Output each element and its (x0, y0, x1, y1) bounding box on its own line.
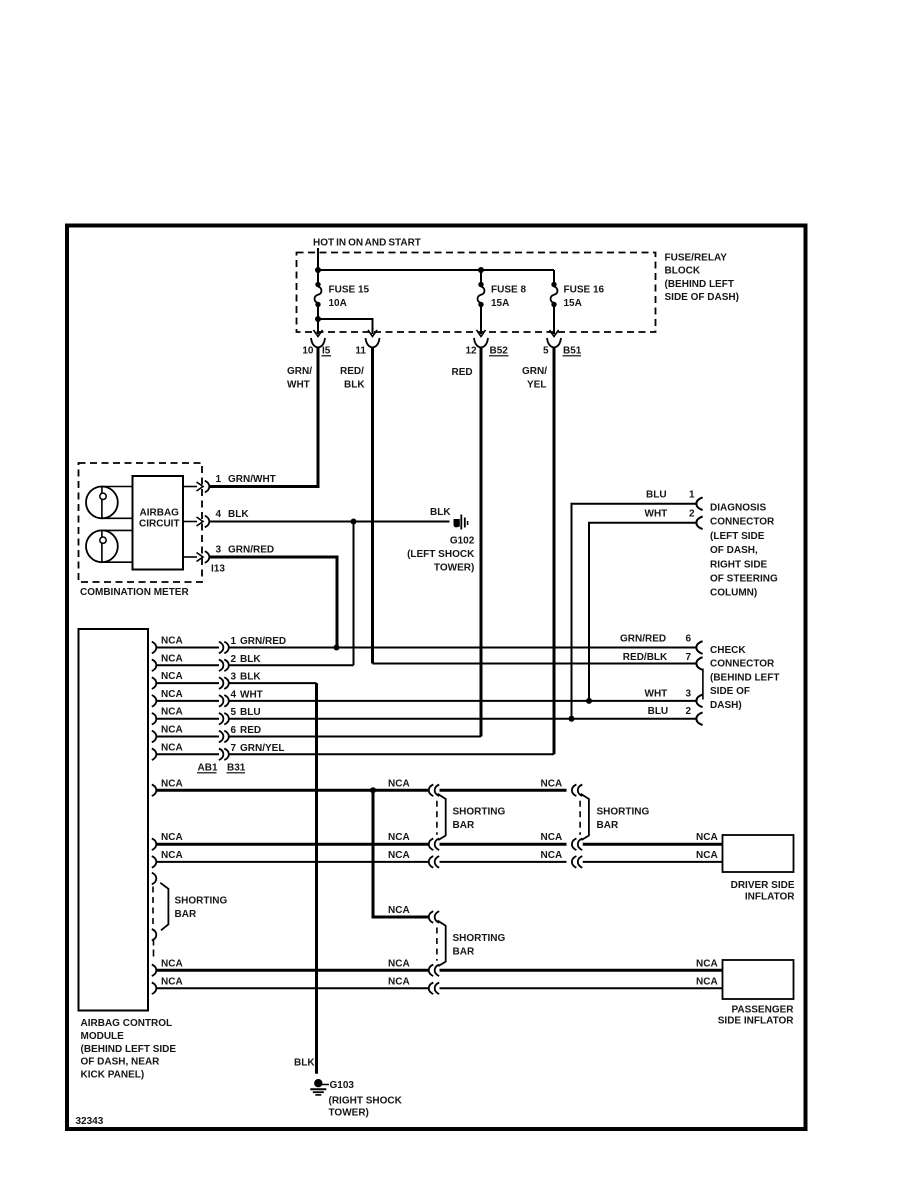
svg-text:RIGHT SIDE: RIGHT SIDE (710, 559, 768, 570)
svg-text:NCA: NCA (161, 778, 183, 789)
wire hot feed down (317, 248, 319, 284)
wire GRN/RED pin3 run (209, 557, 337, 648)
svg-text:(RIGHT SHOCK: (RIGHT SHOCK (329, 1096, 403, 1107)
meter pin 3 out (183, 556, 197, 558)
fuse/relay block dashed box (297, 253, 656, 333)
svg-text:NCA: NCA (696, 976, 718, 987)
wire fuse 8 drop (480, 270, 482, 284)
wire branch to pin 11 (318, 319, 373, 334)
wire row A branch down (373, 790, 428, 917)
svg-text:B51: B51 (563, 346, 582, 357)
svg-text:I13: I13 (211, 564, 225, 575)
svg-text:1: 1 (216, 474, 222, 485)
wire BLK row3 to G103 (315, 683, 318, 1074)
shorting bar driver mid (438, 794, 446, 840)
svg-text:B31: B31 (227, 763, 246, 774)
svg-text:RED/: RED/ (340, 366, 364, 377)
airbag circuit box U-meter (133, 476, 184, 570)
svg-text:OF STEERING: OF STEERING (710, 574, 778, 585)
svg-text:BLK: BLK (430, 507, 451, 518)
module pin row 5 BLU (152, 713, 157, 725)
node row A branch (370, 787, 376, 793)
svg-text:NCA: NCA (161, 689, 183, 700)
svg-text:BLK: BLK (240, 654, 261, 665)
svg-text:6: 6 (231, 725, 237, 736)
connector check pin2 (696, 712, 702, 725)
svg-text:CONNECTOR: CONNECTOR (710, 517, 775, 528)
svg-text:2: 2 (685, 706, 691, 717)
svg-text:NCA: NCA (388, 832, 410, 843)
svg-text:NCA: NCA (388, 958, 410, 969)
svg-text:FUSE 15: FUSE 15 (329, 285, 370, 296)
svg-text:BLK: BLK (228, 509, 249, 520)
svg-text:BLK: BLK (344, 379, 365, 390)
svg-text:AIRBAG: AIRBAG (140, 508, 180, 519)
connector check pin3 (696, 695, 702, 708)
connector diagnosis pin2 (696, 517, 702, 530)
svg-text:NCA: NCA (161, 976, 183, 987)
svg-text:TOWER): TOWER) (434, 563, 474, 574)
svg-text:NCA: NCA (541, 850, 563, 861)
ground G102 (454, 519, 460, 528)
node GRN/RED joins row1 (334, 645, 340, 651)
svg-text:RED: RED (452, 367, 473, 378)
svg-text:KICK PANEL): KICK PANEL) (81, 1070, 145, 1081)
svg-text:2: 2 (231, 654, 237, 665)
svg-text:NCA: NCA (388, 905, 410, 916)
svg-text:COMBINATION METER: COMBINATION METER (80, 587, 189, 598)
svg-text:4: 4 (231, 689, 237, 700)
ground G103 (314, 1079, 322, 1087)
connector diagnosis pin1 (696, 497, 702, 510)
svg-text:BLK: BLK (240, 672, 261, 683)
svg-text:BLU: BLU (646, 490, 667, 501)
node WHT tap row4 (586, 698, 592, 704)
svg-text:3: 3 (231, 672, 237, 683)
connector pin 5 B51 (547, 338, 554, 348)
svg-text:NCA: NCA (541, 832, 563, 843)
svg-text:NCA: NCA (161, 707, 183, 718)
shorting bar passenger (438, 921, 446, 967)
svg-text:AB1: AB1 (198, 763, 218, 774)
svg-text:MODULE: MODULE (81, 1031, 125, 1042)
svg-text:GRN/RED: GRN/RED (620, 634, 666, 645)
node fuse15 branch (315, 316, 321, 322)
node BLU tap row5 (569, 716, 575, 722)
fuse F16 (551, 282, 556, 287)
svg-text:SIDE OF DASH): SIDE OF DASH) (665, 292, 739, 303)
shorting bar driver right (581, 794, 589, 840)
svg-text:6: 6 (685, 634, 691, 645)
svg-text:FUSE/RELAY: FUSE/RELAY (665, 253, 728, 264)
svg-text:7: 7 (685, 652, 691, 663)
svg-text:(BEHIND LEFT SIDE: (BEHIND LEFT SIDE (81, 1044, 177, 1055)
svg-text:G103: G103 (330, 1080, 355, 1091)
svg-text:(BEHIND LEFT: (BEHIND LEFT (710, 672, 779, 683)
svg-text:CIRCUIT: CIRCUIT (139, 519, 180, 530)
svg-text:GRN/RED: GRN/RED (228, 545, 274, 556)
svg-text:WHT: WHT (645, 508, 668, 519)
svg-text:1: 1 (689, 490, 695, 501)
svg-text:SIDE OF: SIDE OF (710, 686, 750, 697)
module shorting bar arcs (152, 873, 157, 885)
svg-text:SHORTING: SHORTING (453, 933, 506, 944)
svg-text:BLU: BLU (240, 707, 261, 718)
svg-text:WHT: WHT (240, 689, 263, 700)
svg-text:NCA: NCA (161, 725, 183, 736)
svg-text:BLU: BLU (648, 706, 669, 717)
svg-text:NCA: NCA (696, 850, 718, 861)
svg-text:NCA: NCA (161, 958, 183, 969)
svg-text:RED/BLK: RED/BLK (623, 652, 668, 663)
svg-text:NCA: NCA (161, 653, 183, 664)
svg-text:NCA: NCA (696, 958, 718, 969)
airbag control module box (79, 629, 149, 1011)
svg-text:3: 3 (216, 545, 222, 556)
wire WHT to diagnosis pin2 (589, 523, 697, 701)
svg-text:15A: 15A (564, 298, 582, 309)
svg-text:(LEFT SHOCK: (LEFT SHOCK (407, 549, 475, 560)
svg-text:BLOCK: BLOCK (665, 266, 701, 277)
combination meter dashed box (79, 463, 203, 582)
svg-text:NCA: NCA (161, 832, 183, 843)
svg-text:AIRBAG CONTROL: AIRBAG CONTROL (81, 1018, 173, 1029)
wire RED feed (480, 348, 483, 737)
node hot bus junction (315, 267, 321, 273)
lamp bulb 1 (86, 487, 118, 519)
wire fuse8 output (480, 307, 482, 334)
svg-text:COLUMN): COLUMN) (710, 588, 757, 599)
svg-text:NCA: NCA (696, 832, 718, 843)
svg-text:BLK: BLK (294, 1058, 315, 1069)
svg-text:3: 3 (685, 688, 691, 699)
svg-text:CHECK: CHECK (710, 645, 746, 656)
svg-text:NCA: NCA (161, 850, 183, 861)
svg-text:SHORTING: SHORTING (453, 807, 506, 818)
check connector brace (702, 669, 704, 700)
svg-text:NCA: NCA (161, 636, 183, 647)
svg-text:4: 4 (216, 509, 222, 520)
svg-text:BAR: BAR (453, 820, 475, 831)
module row C NCA (152, 856, 157, 868)
svg-text:GRN/: GRN/ (522, 366, 547, 377)
svg-text:10: 10 (302, 346, 314, 357)
svg-text:15A: 15A (491, 298, 509, 309)
fuse F8 (478, 282, 483, 287)
svg-text:GRN/WHT: GRN/WHT (228, 474, 276, 485)
svg-text:SHORTING: SHORTING (175, 896, 228, 907)
svg-text:DASH): DASH) (710, 700, 742, 711)
wire BLK branch down (353, 522, 355, 666)
svg-text:GRN/: GRN/ (287, 366, 312, 377)
wire BLU to diagnosis pin1 (572, 504, 698, 719)
svg-text:YEL: YEL (527, 379, 546, 390)
svg-text:12: 12 (465, 346, 477, 357)
svg-text:(LEFT SIDE: (LEFT SIDE (710, 531, 765, 542)
svg-text:FUSE 8: FUSE 8 (491, 285, 526, 296)
module pin row 7 GRN/YEL (152, 749, 157, 761)
fuse F15 (315, 282, 320, 287)
svg-text:NCA: NCA (388, 976, 410, 987)
svg-text:HOT IN ON AND START: HOT IN ON AND START (313, 238, 421, 249)
module row D NCA (152, 965, 157, 977)
svg-text:1: 1 (231, 636, 237, 647)
wire GRN/WHT feed (209, 348, 318, 487)
connector check pin6 (696, 641, 702, 654)
svg-text:NCA: NCA (388, 778, 410, 789)
svg-text:SIDE INFLATOR: SIDE INFLATOR (718, 1016, 795, 1027)
module pin row 3 BLK (152, 677, 157, 689)
module row B NCA (152, 838, 157, 850)
wire BLK to G102 (209, 521, 449, 523)
svg-text:I5: I5 (322, 346, 331, 357)
lamp bulb 2 (86, 530, 118, 562)
svg-text:NCA: NCA (161, 671, 183, 682)
module pin row 6 RED (152, 731, 157, 743)
meter pin 1 out (183, 486, 197, 488)
module pin row 1 GRN/RED (152, 642, 157, 654)
connector pin 11 (366, 338, 373, 348)
wire fuse15 output (317, 307, 319, 334)
wire GRN/YEL feed (553, 348, 556, 755)
svg-text:WHT: WHT (645, 688, 668, 699)
svg-text:GRN/RED: GRN/RED (240, 636, 286, 647)
svg-text:CONNECTOR: CONNECTOR (710, 659, 775, 670)
svg-text:G102: G102 (450, 536, 475, 547)
svg-text:OF DASH,: OF DASH, (710, 545, 758, 556)
svg-text:INFLATOR: INFLATOR (745, 892, 795, 903)
svg-text:TOWER): TOWER) (329, 1108, 369, 1119)
svg-text:B52: B52 (490, 346, 509, 357)
svg-text:7: 7 (231, 743, 237, 754)
svg-text:11: 11 (355, 346, 366, 357)
node BLK branch (351, 519, 357, 525)
module shorting bar stub (153, 939, 155, 960)
outer border frame (67, 226, 806, 1130)
svg-text:5: 5 (543, 346, 549, 357)
module pin row 4 WHT (152, 695, 157, 707)
wire RED/BLK feed (371, 348, 374, 664)
svg-text:2: 2 (689, 508, 695, 519)
connector pin 12 B52 (474, 338, 481, 348)
wire hot bus (318, 269, 554, 271)
svg-text:BAR: BAR (175, 909, 197, 920)
svg-text:BAR: BAR (453, 947, 475, 958)
svg-text:OF DASH, NEAR: OF DASH, NEAR (81, 1057, 161, 1068)
svg-text:NCA: NCA (388, 850, 410, 861)
meter pin 4 out (183, 521, 197, 523)
module row E NCA (152, 983, 157, 995)
wire fuse 16 drop (553, 270, 555, 284)
connector check pin7 (696, 657, 702, 670)
svg-text:(BEHIND LEFT: (BEHIND LEFT (665, 279, 734, 290)
svg-text:5: 5 (231, 707, 237, 718)
svg-text:32343: 32343 (76, 1116, 104, 1127)
module pin row 2 BLK (152, 660, 157, 672)
connector pin 10 I5 (311, 338, 318, 348)
svg-text:NCA: NCA (161, 742, 183, 753)
svg-text:SHORTING: SHORTING (597, 807, 650, 818)
svg-text:GRN/YEL: GRN/YEL (240, 743, 284, 754)
module shorting bar (160, 883, 168, 931)
node fuse 8 tap (478, 267, 484, 273)
svg-text:10A: 10A (329, 298, 347, 309)
wire RED/BLK to check pin7 (373, 663, 698, 665)
svg-text:FUSE 16: FUSE 16 (564, 285, 605, 296)
driver side inflator box (723, 835, 794, 872)
svg-text:PASSENGER: PASSENGER (731, 1004, 794, 1015)
svg-text:NCA: NCA (541, 778, 563, 789)
svg-text:DIAGNOSIS: DIAGNOSIS (710, 503, 766, 514)
svg-text:DRIVER SIDE: DRIVER SIDE (731, 880, 795, 891)
svg-text:BAR: BAR (597, 820, 619, 831)
wire fuse16 output (553, 307, 555, 334)
module row A NCA (152, 785, 157, 797)
svg-text:RED: RED (240, 725, 261, 736)
svg-text:WHT: WHT (287, 379, 310, 390)
passenger side inflator box (723, 960, 794, 999)
